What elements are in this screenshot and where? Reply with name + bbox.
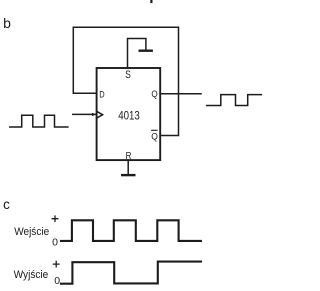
svg-text:Q: Q xyxy=(151,89,157,100)
svg-text:0: 0 xyxy=(54,275,60,287)
svg-text:Wyjście: Wyjście xyxy=(14,269,49,281)
svg-text:4013: 4013 xyxy=(118,108,140,122)
svg-text:D: D xyxy=(99,90,104,101)
timing waveform: input (Wejscie) xyxy=(61,220,201,241)
svg-text:Q: Q xyxy=(151,131,158,142)
ground (bottom, at R) xyxy=(122,174,134,176)
clock triangle (edge-trigger symbol) xyxy=(97,111,103,118)
wire: feedback loop from Q-bar to D xyxy=(73,27,178,135)
svg-text:Wejście: Wejście xyxy=(14,226,49,238)
plus label (input high level) xyxy=(52,216,58,221)
top edge tick (clipped arrow from figure above) xyxy=(150,0,152,2)
flip-flop U1 4013 box xyxy=(97,68,161,160)
wire: S pin to ground xyxy=(128,39,146,69)
timing waveform: output (Wyjscie) xyxy=(61,262,201,284)
wire: R pin to ground xyxy=(127,160,129,174)
svg-text:b: b xyxy=(3,15,11,31)
svg-text:0: 0 xyxy=(52,236,58,248)
wire: clock input with arrow xyxy=(73,113,96,115)
svg-text:S: S xyxy=(125,69,131,81)
wire: Q output xyxy=(160,93,201,95)
input square-wave symbol xyxy=(10,115,68,127)
ground (top, at S) xyxy=(140,50,152,52)
plus label (output high level) xyxy=(53,261,59,266)
svg-text:c: c xyxy=(3,197,10,212)
output square-wave symbol xyxy=(207,95,262,106)
